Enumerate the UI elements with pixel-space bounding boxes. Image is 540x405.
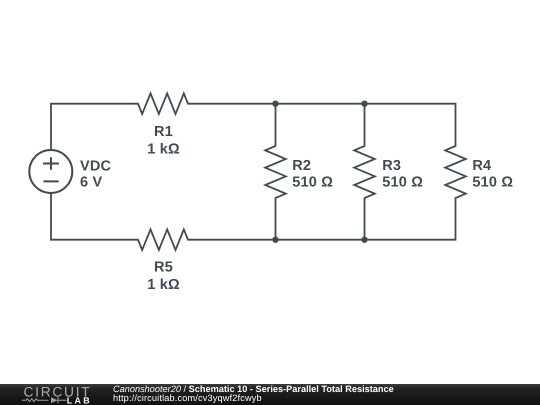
svg-text:510 Ω: 510 Ω	[292, 175, 333, 191]
svg-text:R5: R5	[154, 260, 173, 276]
svg-text:R1: R1	[154, 124, 173, 140]
svg-text:R3: R3	[382, 158, 401, 174]
svg-text:R2: R2	[292, 158, 311, 174]
svg-text:1 kΩ: 1 kΩ	[147, 142, 180, 158]
svg-text:510 Ω: 510 Ω	[382, 175, 423, 191]
svg-text:1 kΩ: 1 kΩ	[147, 277, 180, 293]
svg-text:VDC: VDC	[80, 159, 112, 175]
svg-text:6 V: 6 V	[80, 175, 102, 191]
svg-text:510 Ω: 510 Ω	[472, 175, 513, 191]
svg-text:R4: R4	[472, 158, 491, 174]
svg-text:LAB: LAB	[67, 396, 92, 405]
